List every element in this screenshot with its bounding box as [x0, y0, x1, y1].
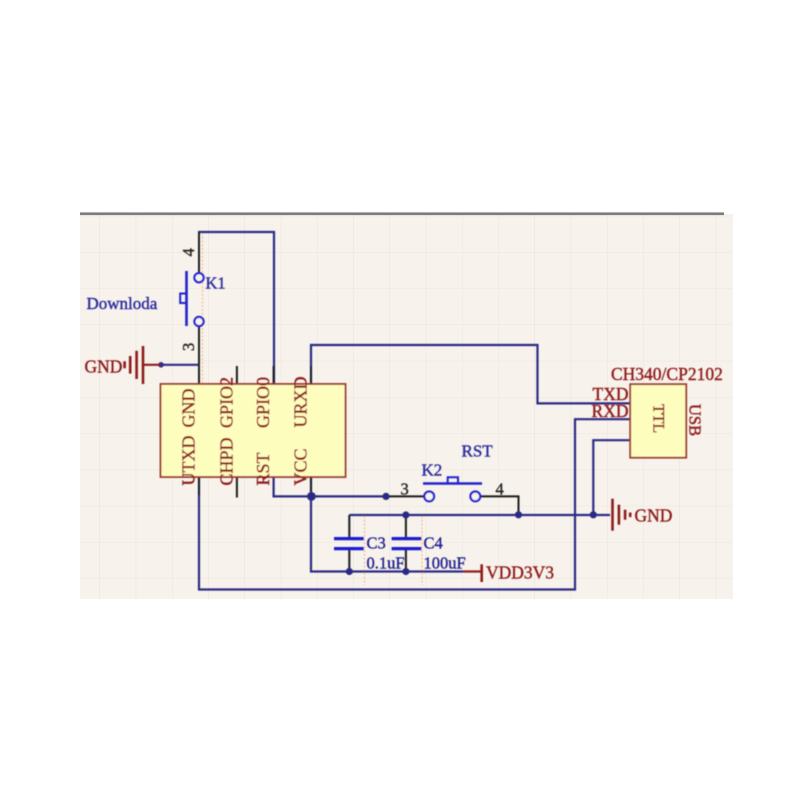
- svg-text:4: 4: [496, 479, 504, 498]
- svg-text:GND: GND: [635, 506, 673, 526]
- svg-text:TTL: TTL: [650, 404, 667, 433]
- svg-text:K2: K2: [422, 461, 443, 480]
- svg-text:CHPD: CHPD: [216, 437, 236, 485]
- svg-text:USB: USB: [686, 404, 705, 436]
- svg-text:URXD: URXD: [291, 376, 311, 427]
- svg-text:CH340/CP2102: CH340/CP2102: [611, 364, 723, 384]
- svg-text:GND: GND: [85, 357, 123, 377]
- svg-text:RST: RST: [462, 442, 494, 461]
- svg-text:VCC: VCC: [291, 448, 311, 485]
- svg-text:3: 3: [401, 479, 409, 498]
- svg-text:GND: GND: [179, 389, 199, 428]
- svg-text:GPIO2: GPIO2: [216, 377, 236, 428]
- svg-text:0.1uF: 0.1uF: [367, 554, 405, 573]
- svg-text:C4: C4: [424, 534, 443, 553]
- svg-text:3: 3: [179, 343, 198, 351]
- svg-text:Downloda: Downloda: [87, 294, 158, 313]
- svg-text:RXD: RXD: [592, 401, 629, 421]
- svg-text:C3: C3: [367, 534, 386, 553]
- svg-text:RST: RST: [253, 452, 273, 485]
- svg-text:GPIO0: GPIO0: [253, 377, 273, 428]
- svg-text:100uF: 100uF: [424, 554, 466, 573]
- svg-text:UTXD: UTXD: [179, 436, 199, 486]
- svg-text:4: 4: [179, 248, 198, 256]
- svg-text:K1: K1: [206, 274, 226, 293]
- svg-text:VDD3V3: VDD3V3: [486, 563, 554, 583]
